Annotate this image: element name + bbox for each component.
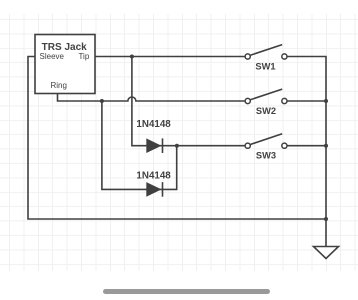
wire: ring branch down through diode D2 row, up to node bbox=[102, 101, 177, 189]
wire: SW2 out to right rail bbox=[287, 100, 326, 102]
wire: SW1 out to right rail, rail down to ground bbox=[287, 57, 326, 247]
diode D1 bbox=[146, 138, 161, 153]
svg-text:1N4148: 1N4148 bbox=[136, 119, 171, 130]
wire: SW3 out to right rail bbox=[287, 145, 326, 147]
node dot rail bottom bbox=[324, 217, 328, 221]
node dot diode outputs bbox=[175, 144, 179, 148]
switch SW2 terminals bbox=[245, 98, 250, 103]
svg-text:SW3: SW3 bbox=[256, 151, 276, 161]
svg-text:Tip: Tip bbox=[78, 52, 89, 61]
wire sleeve: box left to bottom rail bbox=[28, 57, 326, 220]
diode D2 bbox=[146, 182, 161, 197]
switch SW3 terminals bbox=[245, 143, 250, 148]
switch SW2 lever bbox=[250, 89, 282, 100]
node dot rail SW3 bbox=[324, 144, 328, 148]
svg-text:SW1: SW1 bbox=[255, 62, 275, 72]
wire tip: box right to SW1 bbox=[95, 56, 245, 58]
bottom handle bar bbox=[103, 289, 271, 294]
svg-text:Sleeve: Sleeve bbox=[40, 52, 65, 61]
svg-text:1N4148: 1N4148 bbox=[136, 170, 171, 181]
node dot ring branch bbox=[100, 99, 104, 103]
ground symbol bbox=[314, 247, 339, 259]
svg-text:Ring: Ring bbox=[51, 81, 67, 90]
switch SW1 lever bbox=[250, 45, 282, 56]
node dot tip branch bbox=[130, 55, 134, 59]
switch SW3 lever bbox=[250, 134, 282, 145]
svg-text:SW2: SW2 bbox=[256, 106, 276, 116]
wire ring: box bottom, right with hop over vertical, to SW2 bbox=[58, 94, 246, 102]
node dot rail SW2 bbox=[324, 99, 328, 103]
wire: tip branch down through diode D1 row to SW3 bbox=[132, 57, 245, 146]
switch SW1 terminals bbox=[245, 54, 250, 59]
TRS Jack U1 box bbox=[35, 35, 95, 94]
